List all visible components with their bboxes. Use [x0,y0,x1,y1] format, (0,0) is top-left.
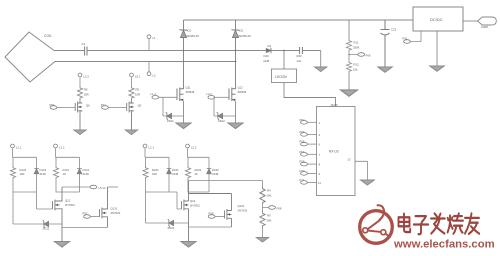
svg-text:11: 11 [318,181,321,185]
resistor R5 [129,86,134,99]
svg-text:COIL: COIL [44,34,52,38]
ground [430,66,444,71]
zener wire [146,192,189,223]
port P08 tap [263,204,270,211]
svg-text:2N7002: 2N7002 [65,203,75,207]
diode D221 [167,169,172,174]
svg-text:L5.2: L5.2 [84,75,90,79]
port L2 [148,62,150,72]
wire coil top rail [54,50,321,52]
svg-text:10K: 10K [152,172,157,176]
svg-text:1K: 1K [63,172,67,176]
svg-text:1K: 1K [195,172,199,176]
svg-text:Q6: Q6 [86,104,90,108]
ground [125,130,137,135]
svg-text:P04: P04 [300,130,305,134]
ground [361,180,375,185]
svg-text:P08: P08 [300,160,305,164]
diode D121 [77,169,82,174]
wire source to ground [183,101,185,123]
svg-text:4148: 4148 [40,172,47,176]
watermark text 电子发烧友 [399,213,480,234]
resistor R222 [185,166,190,179]
svg-text:L2.1: L2.1 [149,146,155,150]
svg-text:Q231: Q231 [238,204,245,208]
svg-text:P07: P07 [300,150,305,154]
svg-text:DC/DC: DC/DC [430,17,443,22]
svg-text:D2: D2 [240,29,244,33]
port L5.12 [90,185,97,189]
transistor Q5 [131,99,133,102]
zener ZD12 [217,112,223,119]
port L1 [148,39,150,51]
svg-text:L1.2: L1.2 [59,146,65,150]
capacitor C1 [85,47,87,56]
wire source bus [189,226,232,228]
svg-text:D1: D1 [188,29,192,33]
svg-text:2N7002: 2N7002 [111,211,121,215]
transistor Q12 cluster1 [37,192,53,209]
svg-text:Q5: Q5 [138,104,142,108]
svg-text:P11: P11 [300,178,305,182]
svg-text:4148: 4148 [212,172,219,176]
ground [256,238,268,243]
wire gate Q5 [108,107,126,109]
diode D2 [232,20,240,89]
wire top supply rail [184,19,414,21]
capacitor C23 [381,20,390,67]
port L5.2 [78,73,82,77]
svg-text:1uF: 1uF [297,59,302,63]
svg-text:R4: R4 [267,189,271,193]
wire DC/DC to ground [436,31,438,66]
svg-text:4148: 4148 [83,172,90,176]
capacitor C40 [300,47,303,54]
wire Q131 drain [108,186,119,188]
svg-text:P06: P06 [300,140,305,144]
svg-text:2N7002: 2N7002 [238,209,248,213]
svg-text:RX-U3: RX-U3 [329,150,339,154]
svg-text:4148: 4148 [172,172,179,176]
ground [176,123,191,129]
wire zener branch [214,97,236,116]
svg-text:ZD22: ZD22 [168,226,175,230]
svg-text:P02: P02 [300,118,305,122]
resistor R9 [260,211,265,227]
diode D222 [207,169,212,174]
coil antenna [5,32,55,82]
transistor Q231 [215,216,225,218]
net load [478,17,497,25]
ground [181,242,196,248]
diode D4 [266,48,271,53]
transistor Q12 [229,88,236,102]
zener ZD11 [166,112,172,119]
IC U1 RX-U3 [284,83,336,107]
svg-text:ZD11: ZD11 [167,119,174,123]
svg-text:20K: 20K [267,219,272,223]
wire gate Q12 [215,96,229,98]
svg-text:16/25: 16/25 [331,103,338,107]
svg-text:C23: C23 [391,28,397,32]
ground [55,242,70,248]
watermark logo [360,205,393,243]
svg-text:www.elecfans.com: www.elecfans.com [393,239,495,251]
svg-text:ZD12: ZD12 [43,227,50,231]
svg-text:D4: D4 [268,44,272,48]
svg-text:ZD12: ZD12 [218,119,225,123]
port L1.2 [54,144,58,148]
transistor Q22 [177,192,182,209]
svg-text:W20PL45: W20PL45 [187,34,200,38]
svg-text:10R: 10R [135,93,140,97]
svg-text:R11: R11 [354,41,359,45]
wire gate Q6 [57,107,75,109]
svg-text:P06: P06 [366,54,371,58]
svg-text:P09: P09 [300,169,305,173]
diode D123 [34,169,39,174]
svg-text:C1: C1 [82,42,86,46]
svg-text:L5.1: L5.1 [135,75,141,79]
svg-text:D40: D40 [264,54,270,58]
resistor R6 [77,86,82,99]
port L2.1 [143,144,147,148]
ground [315,67,327,72]
resistor R4 [262,181,264,187]
svg-text:10K: 10K [20,172,25,176]
svg-text:L1.1: L1.1 [16,146,22,150]
svg-text:10K: 10K [267,194,272,198]
wire drain to port [62,186,90,188]
resistor R221 [143,166,148,179]
svg-text:SI8636: SI8636 [238,90,247,94]
svg-text:2N7002: 2N7002 [190,203,200,207]
svg-text:R5: R5 [136,88,140,92]
resistor R122 [10,166,15,179]
ground [378,67,392,72]
wire zener branch [163,97,184,116]
port P06 [358,53,365,57]
resistor R11 [348,20,350,39]
ground [341,90,358,96]
resistor R121 [53,166,58,179]
svg-text:R6: R6 [84,88,88,92]
svg-text:10R: 10R [84,93,89,97]
svg-text:R9: R9 [267,214,271,218]
ground [74,130,86,135]
zener ZD22 [168,219,174,226]
wire to load [463,20,479,22]
junction dots [183,50,350,63]
svg-text:R40: R40 [297,54,303,58]
wire to LDO [283,51,285,70]
transistor Q131 [90,216,99,218]
port L1.1 [11,144,15,148]
port L2.2 [186,144,190,148]
port L5.1 [130,73,134,77]
wire coil bottom rail [55,61,236,63]
wire + ground after C40 [320,51,322,68]
svg-text:L1: L1 [153,36,157,40]
svg-text:51k: 51k [353,68,358,72]
wire drain bus to R4 [189,180,263,182]
transistor Q6 [79,99,81,102]
svg-text:330K: 330K [353,46,360,50]
svg-text:L2: L2 [153,74,157,78]
svg-text:Q131: Q131 [111,207,118,211]
zener wire [13,192,62,224]
resistor R12 [346,61,351,72]
svg-text:L2.2: L2.2 [191,146,197,150]
zener ZD12 [43,220,49,227]
svg-text:L5.12: L5.12 [99,186,106,190]
svg-text:4148: 4148 [263,59,270,63]
svg-text:W20PL45: W20PL45 [239,34,252,38]
converter DC/DC [413,7,463,31]
wire source bus [62,226,108,228]
diode D1 [180,20,188,89]
transistor Q11 [177,88,184,102]
node wire to P06 [349,51,358,61]
svg-text:load: load [482,25,488,29]
svg-text:SI8636: SI8636 [186,90,195,94]
svg-text:LDO/3V: LDO/3V [275,75,288,79]
svg-text:R12: R12 [354,63,360,67]
svg-text:P08: P08 [277,207,282,211]
regulator LDO [272,69,297,83]
wire gate Q11 [159,96,177,98]
svg-text:13: 13 [348,157,352,161]
wire source to ground [235,101,237,123]
ground [228,123,243,129]
